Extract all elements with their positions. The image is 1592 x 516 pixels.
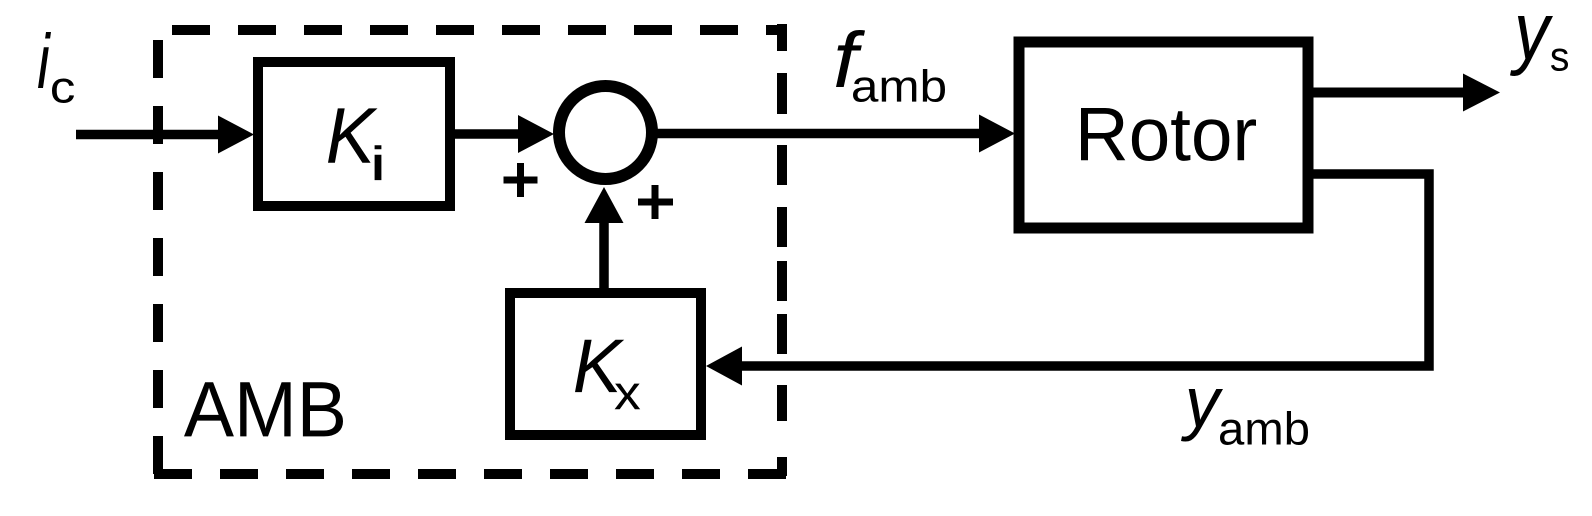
wire: summing junction to Rotor with arrowhead <box>657 115 1015 153</box>
label f_amb <box>836 30 945 102</box>
label AMB <box>184 382 343 436</box>
plus sign (left input) <box>504 163 538 197</box>
wire: input line into K_i with arrowhead <box>76 116 254 154</box>
wire: K_i to summing junction with arrowhead <box>455 115 554 153</box>
block K_i <box>258 62 450 206</box>
label y_amb <box>1181 389 1308 445</box>
block K_x <box>510 293 701 435</box>
wire: feedback from Rotor down and left to K_x with arrowhead <box>706 174 1429 386</box>
block Rotor <box>1019 42 1308 228</box>
summing junction <box>559 86 652 179</box>
plus sign (bottom input) <box>638 185 673 219</box>
node i_c input label <box>38 32 74 103</box>
dashed AMB boundary box <box>154 24 786 476</box>
wire: Rotor output to y_s with arrowhead <box>1313 74 1500 112</box>
wire: K_x to summing junction with arrowhead <box>585 187 624 288</box>
label y_s <box>1510 16 1568 76</box>
